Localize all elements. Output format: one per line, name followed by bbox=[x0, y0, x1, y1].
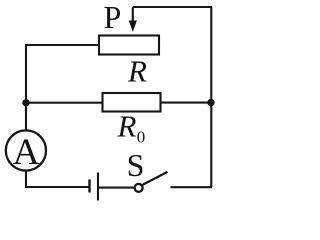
svg-text:0: 0 bbox=[137, 127, 146, 146]
wire R0 branch left bbox=[26, 102, 102, 104]
wire right vertical bbox=[210, 7, 212, 187]
battery cell positive plate (long) bbox=[97, 173, 99, 201]
svg-text:P: P bbox=[104, 0, 122, 35]
rheostat slider arrow P bbox=[129, 7, 137, 32]
wire left vertical (top-left corner down to ammeter) bbox=[25, 44, 27, 130]
svg-text:S: S bbox=[127, 147, 145, 183]
wire battery to switch bbox=[98, 187, 135, 189]
wire ammeter bottom to bottom-left corner bbox=[25, 171, 27, 189]
switch S pivot bbox=[135, 184, 143, 192]
svg-text:R: R bbox=[127, 53, 147, 88]
svg-text:A: A bbox=[13, 132, 40, 173]
node junction dot left bbox=[22, 99, 29, 106]
wire bottom-left (corner to battery) bbox=[25, 186, 89, 188]
rheostat R body bbox=[99, 36, 159, 55]
wire top (slider to top-right corner) bbox=[133, 6, 212, 8]
label R0 value bbox=[117, 109, 146, 147]
svg-text:R: R bbox=[117, 109, 137, 144]
wire R0 branch right bbox=[160, 102, 211, 104]
node junction dot right bbox=[207, 99, 214, 106]
ammeter A bbox=[6, 130, 46, 173]
switch S blade (open) bbox=[142, 172, 167, 185]
wire top-left horizontal (node between ammeter branch and R left terminal) bbox=[25, 44, 99, 46]
battery cell negative plate (short) bbox=[88, 180, 90, 193]
resistor R0 body bbox=[103, 93, 161, 112]
wire switch to bottom-right corner bbox=[171, 186, 213, 188]
